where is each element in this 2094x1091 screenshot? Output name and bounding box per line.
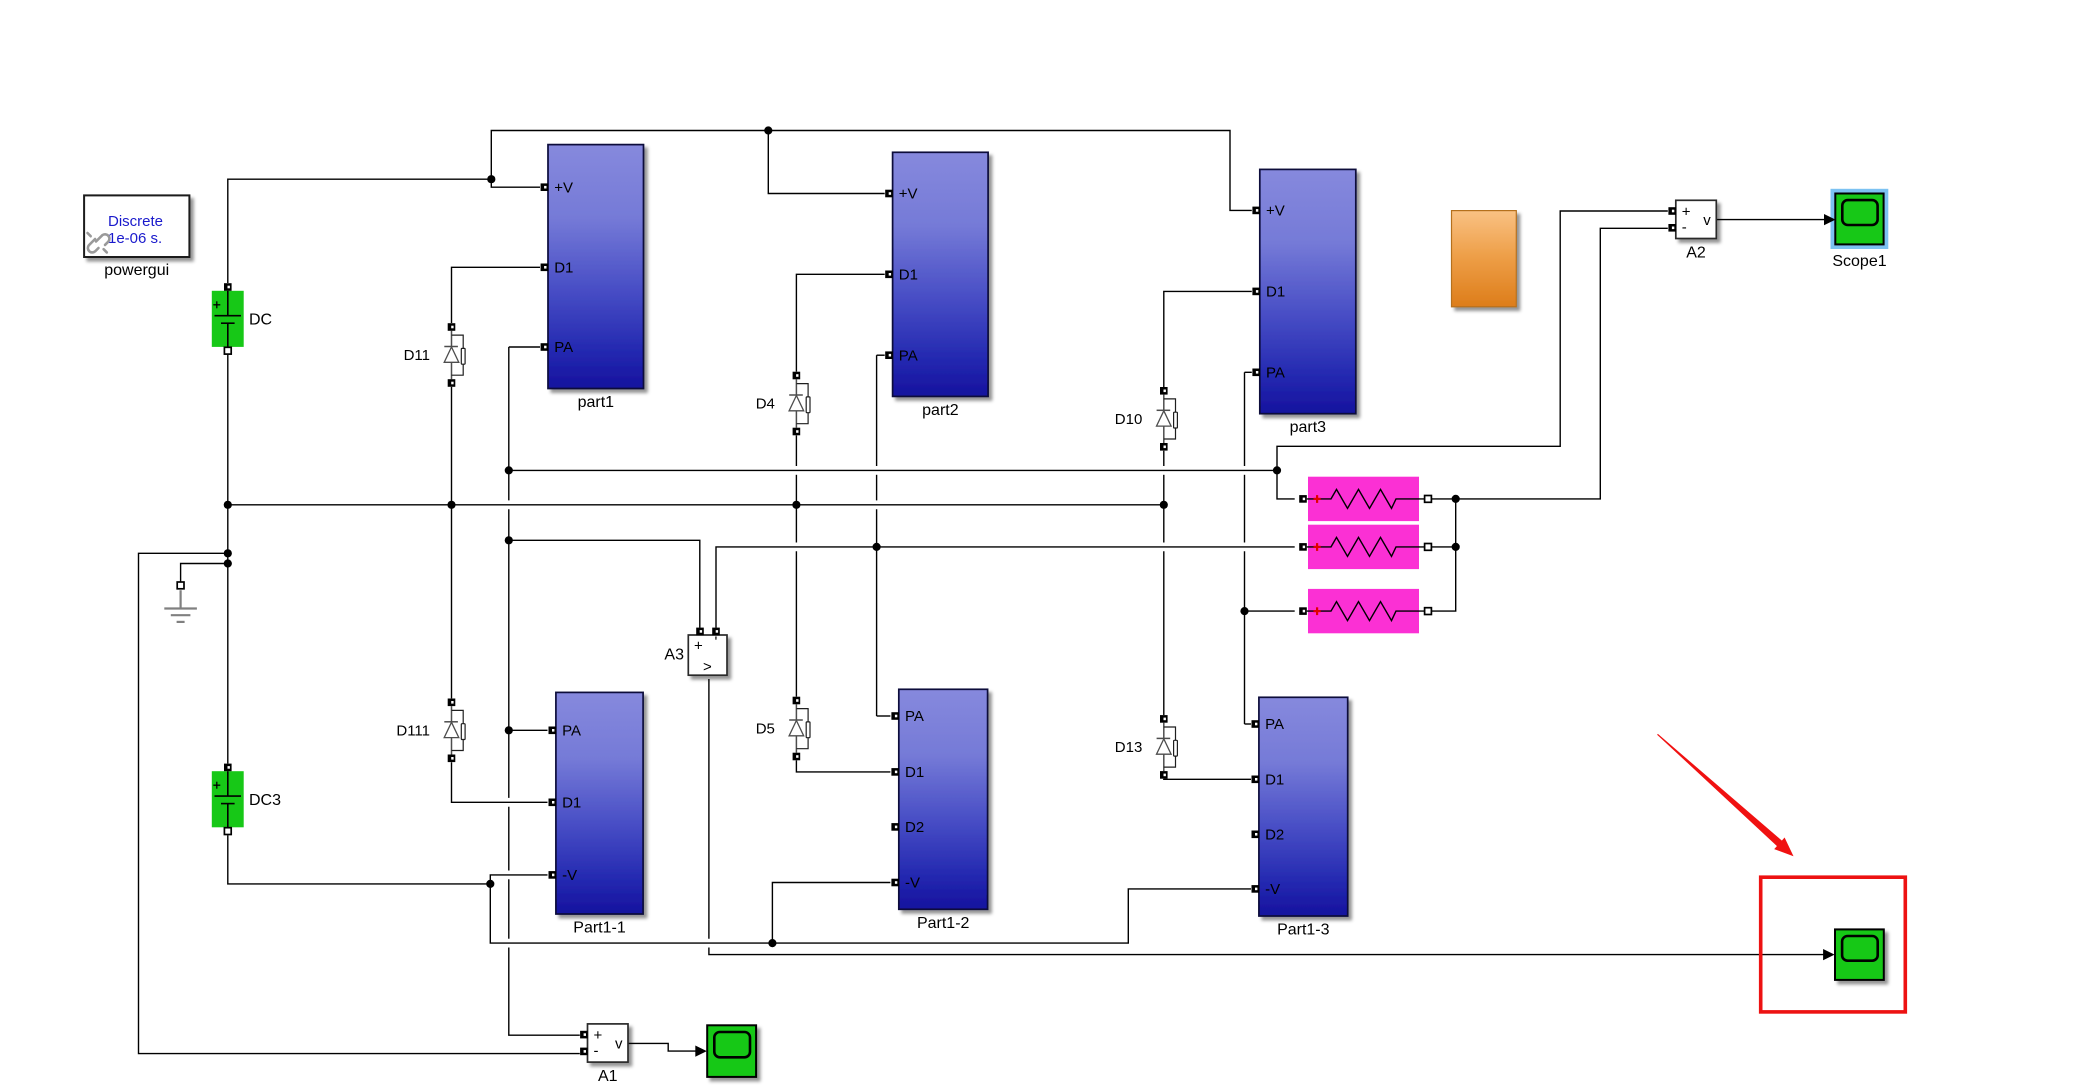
voltage measurement A3: [688, 628, 727, 676]
port A1.+: [580, 1031, 588, 1039]
wire DC+ up to +V bus corner: [228, 179, 492, 283]
port Part1-3.-V: [1252, 881, 1281, 898]
junction node mid bus / D4-D5: [792, 501, 800, 509]
selection highlight Scope1: [1831, 189, 1889, 249]
port part3.PA: [1252, 365, 1285, 382]
wire D13 bottom to Part1-3 D1: [1164, 778, 1251, 781]
wire part3 PA column lower: [1244, 551, 1246, 724]
wire D10-D13 link mid: [1163, 475, 1165, 543]
wire right bus to R2: [1432, 546, 1456, 548]
red highlight box: [1761, 877, 1906, 1012]
diode D111: [444, 699, 465, 763]
svg-text:D13: D13: [1115, 739, 1143, 756]
wire part2 PA column lower: [876, 509, 878, 716]
svg-text:D2: D2: [905, 819, 924, 836]
wire D4-D5 link mid: [795, 475, 797, 543]
port A2.+: [1668, 207, 1676, 215]
svg-text:PA: PA: [554, 339, 573, 356]
junction node line4 / part2 PA chain: [873, 543, 881, 551]
svg-text:+V: +V: [1266, 203, 1285, 220]
svg-text:-V: -V: [905, 875, 920, 892]
polarity + mark R1: [1314, 495, 1321, 503]
junction node mid bus / D11-D111: [447, 501, 455, 509]
port D4 cathode (bottom): [793, 428, 801, 436]
wire D111 bottom to Part1-1 D1: [452, 762, 548, 802]
port D111 anode (top): [448, 699, 456, 707]
port Part1-1.PA: [549, 723, 582, 740]
junction node mid bus left: [224, 501, 232, 509]
svg-text:part3: part3: [1290, 419, 1327, 436]
wire part3 D1 to D10 top: [1164, 291, 1252, 387]
port Part1-2.PA: [891, 708, 924, 725]
resistor R2: [1299, 525, 1431, 569]
junction node -V bus / Part1-2 branch: [768, 939, 776, 947]
port D4 anode (top): [793, 372, 801, 380]
port part1.+V: [541, 179, 573, 196]
wire line1 up to A2 plus: [1277, 211, 1668, 470]
wire part3 PA column to resistor R3: [1245, 610, 1295, 612]
arrowhead into Scope1: [1824, 214, 1836, 225]
wire part1 D1 to D11 top: [452, 267, 541, 323]
svg-text:>: >: [703, 659, 712, 676]
svg-text:-V: -V: [562, 867, 577, 884]
arrowhead into Scope2: [1823, 949, 1835, 960]
wire A3 output down: [708, 679, 710, 939]
svg-text:A2: A2: [1686, 245, 1706, 262]
svg-text:+V: +V: [554, 179, 573, 196]
port D11 cathode (bottom): [448, 379, 456, 387]
svg-text:D4: D4: [756, 396, 775, 413]
wire PA column to A1 plus: [509, 948, 580, 1036]
svg-text:-V: -V: [1265, 881, 1280, 898]
svg-text:D1: D1: [554, 260, 573, 277]
voltage measurement A2: [1668, 200, 1716, 238]
wire DC- down to DC3+: [227, 355, 229, 764]
wire -V bus to Part1-3 -V: [490, 884, 1251, 943]
DC source DC: [212, 283, 244, 354]
wire part2 PA column to Part1-2 PA: [877, 715, 891, 717]
svg-text:Part1-3: Part1-3: [1277, 922, 1330, 939]
svg-text:': ': [715, 634, 718, 651]
svg-text:DC: DC: [249, 312, 272, 329]
junction node PA column / Part1-1 PA: [505, 726, 513, 734]
port DC3.+ (top): [224, 764, 232, 772]
port D10 cathode (bottom): [1160, 443, 1168, 451]
wire PA column to Part1-1 PA: [509, 729, 548, 731]
svg-text:Part1-1: Part1-1: [573, 920, 626, 937]
wire D10-D13 link to D13 top: [1163, 551, 1165, 715]
svg-text:D11: D11: [404, 347, 430, 364]
subsystem part2: [885, 152, 988, 396]
wire D5 bottom to Part1-2 D1: [796, 760, 890, 772]
svg-text:D2: D2: [1265, 827, 1284, 844]
wire D4 bottom down (above crossing): [795, 435, 797, 466]
polarity + mark R3: [1314, 607, 1321, 615]
svg-text:PA: PA: [1265, 716, 1284, 733]
svg-text:PA: PA: [562, 723, 581, 740]
subsystem part1: [541, 145, 644, 389]
wire PA column upper: [508, 347, 510, 500]
svg-text:PA: PA: [905, 708, 924, 725]
port A3.' (top right): [712, 628, 720, 636]
port R2 left: [1299, 543, 1307, 551]
wire D10 bottom down (above crossing): [1163, 451, 1165, 466]
scope Scope2 (in red box): [1835, 929, 1884, 980]
port part2.+V: [885, 186, 917, 203]
diode D10: [1157, 387, 1178, 451]
wire part3 PA column to Part1-3 PA: [1245, 723, 1252, 725]
svg-text:D10: D10: [1115, 411, 1143, 428]
svg-text:Part1-2: Part1-2: [917, 915, 970, 932]
subsystem Part1-2: [891, 689, 987, 909]
port A2.-: [1668, 224, 1676, 232]
svg-text:+: +: [694, 638, 703, 655]
svg-text:A1: A1: [598, 1068, 618, 1085]
port R2 right: [1425, 544, 1432, 551]
svg-text:D111: D111: [396, 722, 430, 739]
wire DC mid to ground: [181, 564, 228, 583]
port part3.D1: [1252, 284, 1285, 301]
port part1.D1: [541, 260, 574, 277]
svg-text:Scope1: Scope1: [1832, 253, 1886, 270]
port Part1-3.D1: [1252, 772, 1285, 789]
junction node line1 / part3 branch: [1273, 466, 1281, 474]
port A1.-: [580, 1048, 588, 1056]
port Part1-2.D2: [891, 819, 924, 836]
svg-text:v: v: [1703, 212, 1711, 229]
svg-text:+V: +V: [899, 186, 918, 203]
wire part3 PA column mid: [1244, 475, 1246, 543]
junction node PA column / line3: [505, 536, 513, 544]
port R3 left: [1299, 607, 1307, 615]
svg-text:DC3: DC3: [249, 792, 281, 809]
wire line1 down to resistor R1: [1277, 470, 1295, 499]
polarity + mark R2: [1314, 543, 1321, 551]
svg-text:v: v: [615, 1036, 623, 1053]
port Part1-2.-V: [891, 875, 920, 892]
port Part1-3.D2: [1252, 827, 1285, 844]
junction node part3 PA column / R3: [1240, 607, 1248, 615]
wire DC mid to A1 minus: [139, 553, 580, 1053]
wire D4-D5 link to D5 top: [795, 551, 797, 696]
svg-text:Discrete: Discrete: [108, 213, 163, 230]
resistor R3: [1299, 589, 1431, 633]
svg-text:PA: PA: [899, 347, 918, 364]
svg-text:D1: D1: [899, 267, 918, 284]
wire part1 PA stub: [509, 346, 540, 348]
arrowhead into Scope: [695, 1046, 707, 1057]
port part2.D1: [885, 267, 918, 284]
wire part2 PA column mid: [876, 475, 878, 501]
wire DC3- to -V node: [228, 835, 491, 884]
ground symbol: [164, 582, 197, 622]
DC source DC3: [212, 764, 244, 835]
subsystem part3: [1252, 169, 1355, 413]
port A3.+ (top left): [696, 628, 704, 636]
junction node +V bus / part2 branch: [764, 126, 772, 134]
wire PA column below -V crossing: [508, 879, 510, 938]
diode D4: [789, 372, 810, 436]
port Part1-1.D1: [549, 795, 582, 812]
svg-text:D1: D1: [1266, 284, 1285, 301]
resistor R1: [1299, 477, 1431, 521]
diode D5: [789, 697, 810, 761]
wire -V node to Part1-1 -V: [490, 875, 547, 884]
wire R1 right to A2 minus: [1432, 228, 1668, 499]
wire part3 PA column upper: [1244, 372, 1246, 466]
port Part1-1.-V: [549, 867, 578, 884]
wire +V bus to part1 +V: [491, 179, 540, 187]
junction node DC column / A1 minus branch: [224, 549, 232, 557]
port D13 anode (top): [1160, 715, 1168, 723]
orange block: [1452, 211, 1517, 307]
junction node -V left: [486, 880, 494, 888]
svg-text:PA: PA: [1266, 365, 1285, 382]
junction node +V bus left: [487, 175, 495, 183]
port DC3.- (bottom): [224, 828, 231, 835]
wire PA column mid: [508, 509, 510, 798]
scope Scope (A1 output): [707, 1025, 756, 1077]
port R1 left: [1299, 495, 1307, 503]
wire A3 output to Scope2: [709, 948, 1827, 955]
svg-text:A3: A3: [664, 647, 684, 664]
wire -V bus branch to Part1-2 -V: [772, 883, 890, 944]
port DC.+ (top): [224, 283, 232, 291]
port part2.PA: [885, 347, 918, 364]
svg-text:D1: D1: [1265, 772, 1284, 789]
port Part1-2.D1: [891, 764, 924, 781]
svg-text:powergui: powergui: [104, 262, 169, 279]
voltage measurement A1: [580, 1024, 628, 1062]
wire D11 bottom to D111 top through mid bus: [451, 387, 453, 699]
scope Scope1: [1835, 194, 1883, 245]
port D13 cathode (bottom): [1160, 771, 1168, 779]
port DC.- (bottom): [224, 347, 231, 354]
subsystem Part1-3: [1252, 697, 1348, 916]
port R3 right: [1425, 608, 1432, 615]
port D11 anode (top): [448, 323, 456, 331]
svg-text:1e-06 s.: 1e-06 s.: [108, 230, 162, 247]
svg-text:part2: part2: [922, 402, 959, 419]
wire line3 PA net to A3 plus: [509, 540, 700, 628]
svg-text:-: -: [594, 1042, 599, 1059]
port D5 cathode (bottom): [793, 753, 801, 761]
junction node DC column / ground branch: [224, 559, 232, 567]
wire A2 v to Scope1: [1716, 219, 1826, 221]
port D10 anode (top): [1160, 387, 1168, 395]
diode D13: [1157, 715, 1178, 779]
wire A1 v to Scope: [628, 1043, 698, 1051]
wire A3 second input riser / line4 to resistor R2: [716, 547, 1295, 628]
red annotation arrow: [1657, 734, 1793, 856]
svg-text:D1: D1: [905, 764, 924, 781]
wire PA column below D1 crossing: [508, 807, 510, 871]
wire part3 PA stub: [1245, 371, 1252, 373]
wire top +V bus to part3 +V: [491, 131, 1252, 211]
subsystem Part1-1: [549, 692, 644, 914]
wire top +V bus drop to part2 +V: [768, 131, 884, 194]
port Part1-3.PA: [1252, 716, 1285, 733]
svg-text:part1: part1: [578, 394, 615, 411]
wire part2 PA column upper: [876, 355, 878, 466]
svg-text:D1: D1: [562, 795, 581, 812]
port R1 right: [1425, 496, 1432, 503]
svg-text:D5: D5: [756, 721, 775, 738]
junction node PA column / line1: [505, 466, 513, 474]
port D111 cathode (bottom): [448, 755, 456, 763]
junction node mid bus / D10-D13: [1160, 501, 1168, 509]
wire part2 D1 to D4 top: [796, 274, 884, 371]
wire mid bus DC midpoint to D10-D13: [228, 504, 1164, 506]
port part1.PA: [541, 339, 574, 356]
wire part2 PA stub: [877, 354, 885, 356]
junction node right bus / R1: [1452, 495, 1460, 503]
port D5 anode (top): [793, 697, 801, 705]
wire line1 PA net to part3 corner: [509, 469, 1277, 471]
powergui block: [84, 195, 189, 257]
wire right bus down to R3: [1432, 499, 1456, 611]
svg-text:-: -: [1682, 219, 1687, 236]
port part3.+V: [1252, 203, 1284, 220]
diode D11: [444, 323, 465, 387]
junction node right bus / R2: [1452, 543, 1460, 551]
